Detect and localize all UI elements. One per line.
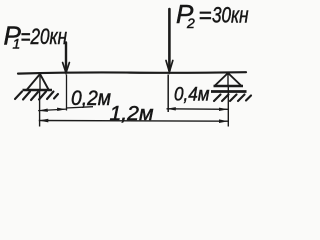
extension line below P1 bbox=[66, 75, 68, 111]
hatching under support A bbox=[15, 92, 58, 101]
dimension line 1,2м bbox=[39, 119, 228, 123]
svg-text:0,4м: 0,4м bbox=[174, 84, 210, 106]
label P2 = 30кн bbox=[176, 0, 249, 31]
extension line below support B bbox=[227, 86, 229, 127]
svg-text:2: 2 bbox=[186, 15, 195, 31]
extension line below support A bbox=[39, 90, 41, 127]
support A pin (left) bbox=[23, 74, 53, 90]
extension line below P2 bbox=[167, 75, 169, 113]
dimension line 0,4м bbox=[167, 107, 229, 111]
support B roller (right) bbox=[211, 73, 247, 92]
svg-text:1: 1 bbox=[13, 36, 21, 52]
svg-text:0,2м: 0,2м bbox=[71, 86, 111, 110]
hatching under support B bbox=[214, 95, 251, 102]
force arrow P1 bbox=[63, 43, 70, 73]
force arrow P2 bbox=[166, 9, 173, 72]
label P1 = 20кн bbox=[4, 21, 68, 52]
svg-text:30кн: 30кн bbox=[212, 3, 249, 28]
beam bbox=[18, 72, 246, 73]
svg-text:=20кн: =20кн bbox=[21, 24, 68, 49]
svg-text:=: = bbox=[199, 3, 212, 28]
dimension line 0,2м bbox=[38, 107, 93, 112]
svg-text:1,2м: 1,2м bbox=[110, 103, 154, 125]
